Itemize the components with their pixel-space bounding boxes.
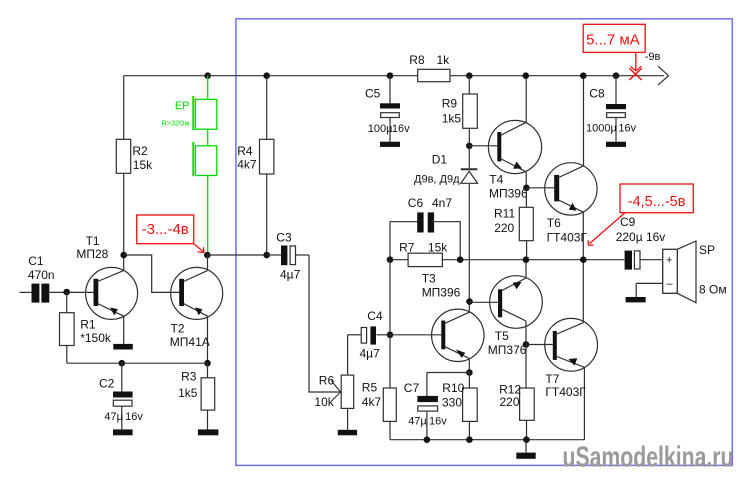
svg-text:Т6: Т6 (547, 216, 561, 230)
svg-text:16v: 16v (618, 122, 636, 134)
svg-text:1k: 1k (437, 53, 451, 67)
svg-text:8 Ом: 8 Ом (699, 282, 727, 296)
svg-text:+: + (666, 255, 672, 267)
svg-text:МП41А: МП41А (170, 335, 210, 349)
svg-text:R9: R9 (442, 97, 458, 111)
svg-text:C7: C7 (404, 381, 420, 395)
svg-text:МП396: МП396 (489, 187, 528, 201)
svg-text:R1: R1 (80, 317, 96, 331)
svg-text:47µ: 47µ (104, 411, 123, 423)
svg-text:R11: R11 (494, 207, 515, 221)
svg-text:–: – (667, 278, 674, 290)
svg-text:1k5: 1k5 (178, 386, 198, 400)
svg-text:R8: R8 (409, 53, 425, 67)
svg-text:R2: R2 (132, 144, 148, 158)
svg-text:Т2: Т2 (171, 321, 185, 335)
svg-text:16v: 16v (429, 416, 447, 428)
svg-text:ЕР: ЕР (175, 100, 190, 112)
svg-text:16v: 16v (392, 123, 410, 135)
svg-text:15k: 15k (428, 240, 448, 254)
svg-text:R6: R6 (319, 373, 335, 387)
svg-text:uSamodelkina.ru: uSamodelkina.ru (563, 442, 734, 474)
svg-text:МП376: МП376 (488, 343, 527, 357)
svg-text:R5: R5 (362, 380, 378, 394)
svg-text:C9: C9 (620, 215, 636, 229)
svg-text:220: 220 (500, 395, 520, 409)
svg-text:1000µ: 1000µ (586, 122, 617, 134)
svg-text:C4: C4 (367, 309, 383, 323)
svg-text:4k7: 4k7 (237, 158, 257, 172)
svg-text:C1: C1 (28, 254, 44, 268)
svg-text:D1: D1 (432, 152, 448, 166)
svg-text:R3: R3 (181, 369, 197, 383)
svg-text:100µ: 100µ (368, 123, 393, 135)
svg-text:C6: C6 (408, 196, 424, 210)
svg-text:МП396: МП396 (422, 286, 461, 300)
svg-text:4µ7: 4µ7 (360, 346, 381, 360)
svg-text:Т7: Т7 (545, 372, 559, 386)
svg-text:220µ 16v: 220µ 16v (616, 230, 666, 244)
svg-text:Т3: Т3 (422, 272, 436, 286)
svg-text:R10: R10 (442, 381, 464, 395)
svg-text:47µ: 47µ (408, 416, 427, 428)
svg-text:C2: C2 (99, 377, 115, 391)
svg-text:-9в: -9в (645, 51, 661, 63)
svg-text:10k: 10k (314, 395, 334, 409)
svg-text:*150k: *150k (80, 331, 112, 345)
svg-text:-4,5...-5в: -4,5...-5в (628, 194, 686, 210)
svg-text:ГТ403Г: ГТ403Г (545, 385, 586, 399)
svg-text:330: 330 (442, 396, 462, 410)
svg-text:R>32Ом: R>32Ом (162, 118, 190, 127)
svg-text:4n7: 4n7 (432, 196, 452, 210)
svg-text:4k7: 4k7 (362, 395, 382, 409)
svg-text:Д9в, Д9д: Д9в, Д9д (414, 174, 460, 186)
svg-text:ГТ403Г: ГТ403Г (547, 230, 588, 244)
svg-text:5...7 мА: 5...7 мА (586, 31, 640, 48)
svg-text:-3...-4в: -3...-4в (142, 221, 189, 238)
svg-text:470n: 470n (28, 268, 55, 282)
svg-text:220: 220 (494, 221, 514, 235)
svg-text:R7: R7 (399, 240, 415, 254)
svg-text:C5: C5 (365, 86, 381, 100)
svg-text:SP: SP (699, 243, 715, 257)
svg-text:Т5: Т5 (495, 329, 509, 343)
svg-text:R4: R4 (237, 144, 253, 158)
svg-text:C3: C3 (276, 231, 292, 245)
svg-text:C8: C8 (589, 87, 605, 101)
svg-text:16v: 16v (125, 411, 143, 423)
svg-text:4µ7: 4µ7 (280, 267, 301, 281)
svg-text:Т1: Т1 (86, 234, 100, 248)
svg-text:Т4: Т4 (489, 173, 503, 187)
svg-text:МП28: МП28 (76, 247, 108, 261)
svg-text:1k5: 1k5 (442, 112, 462, 126)
svg-text:15k: 15k (133, 158, 153, 172)
